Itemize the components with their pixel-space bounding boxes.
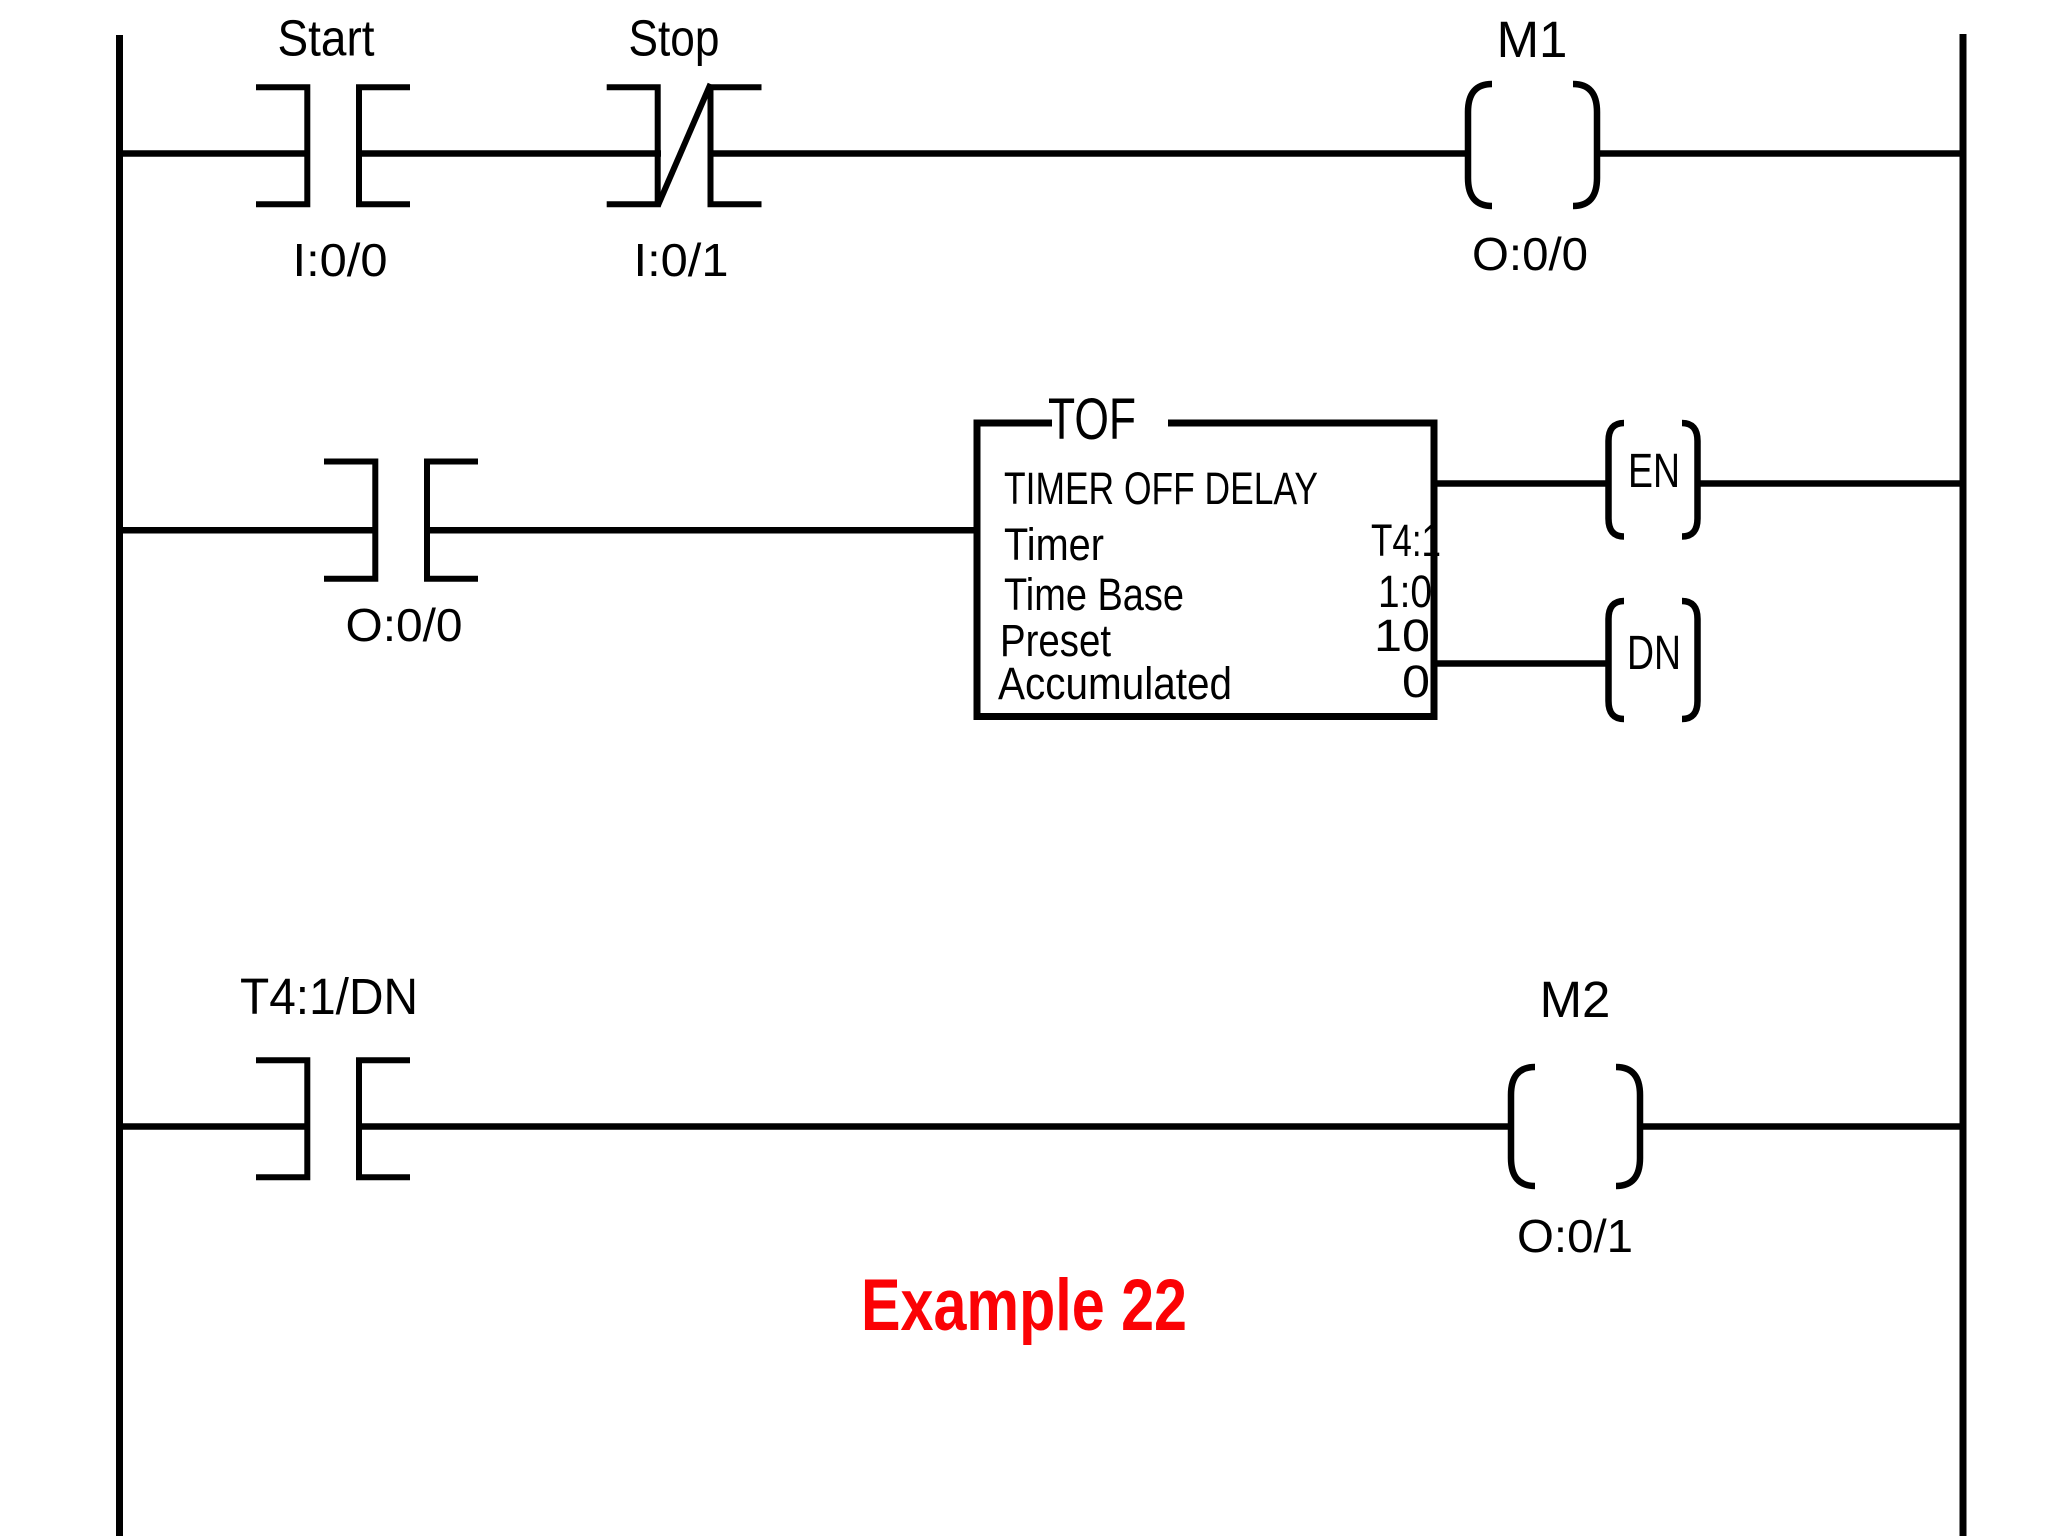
svg-text:T4:1/DN: T4:1/DN <box>240 968 418 1025</box>
svg-text:TOF: TOF <box>1048 387 1136 452</box>
svg-text:I:0/1: I:0/1 <box>634 234 729 286</box>
wire coil M1 to right rail <box>1595 150 1963 157</box>
right power rail <box>1960 34 1967 1536</box>
contact Start (NO) I:0/0 <box>256 87 410 204</box>
wire between Start and Stop <box>359 150 661 157</box>
svg-text:Stop: Stop <box>629 10 720 67</box>
output flag EN <box>1609 423 1698 537</box>
left power rail <box>116 35 123 1536</box>
coil M1 O:0/0 <box>1468 84 1597 206</box>
svg-text:I:0/0: I:0/0 <box>293 234 388 286</box>
svg-text:TIMER OFF DELAY: TIMER OFF DELAY <box>1004 463 1318 514</box>
wire TOF box to DN bracket <box>1437 660 1609 667</box>
contact O:0/0 (NO) <box>324 462 478 579</box>
contact Stop (NC) I:0/1 <box>607 84 762 206</box>
wire coil M2 to right rail <box>1638 1123 1963 1130</box>
svg-text:Example 22: Example 22 <box>861 1265 1187 1346</box>
timer block TOF T4:1 <box>974 420 1438 721</box>
wire EN bracket to right rail <box>1698 480 1964 487</box>
rung 1 wire: rail to Start contact <box>116 150 307 157</box>
svg-text:Accumulated: Accumulated <box>998 658 1232 709</box>
rung 3 wire: rail to contact <box>116 1123 307 1130</box>
coil M2 O:0/1 <box>1511 1067 1640 1186</box>
wire Stop to coil M1 <box>711 150 1471 157</box>
svg-text:M1: M1 <box>1497 11 1568 68</box>
svg-text:10: 10 <box>1374 610 1430 661</box>
output flag DN <box>1609 601 1698 719</box>
wire contact to coil M2 <box>359 1123 1512 1130</box>
svg-text:O:0/0: O:0/0 <box>1472 228 1588 280</box>
svg-text:EN: EN <box>1628 445 1680 498</box>
svg-text:M2: M2 <box>1540 971 1611 1028</box>
svg-text:DN: DN <box>1627 627 1681 680</box>
svg-text:Time Base: Time Base <box>1004 569 1184 620</box>
svg-text:Timer: Timer <box>1004 519 1104 570</box>
wire contact to TOF box <box>427 527 977 534</box>
svg-text:O:0/1: O:0/1 <box>1517 1210 1633 1262</box>
NC slash <box>658 84 711 206</box>
contact T4:1/DN (NO) <box>256 1060 410 1177</box>
rung 2 wire: rail to contact <box>116 527 375 534</box>
svg-text:O:0/0: O:0/0 <box>346 599 463 651</box>
svg-text:Start: Start <box>278 10 375 67</box>
svg-text:T4:1: T4:1 <box>1371 515 1441 566</box>
svg-text:0: 0 <box>1402 656 1430 707</box>
wire TOF box to EN bracket <box>1437 480 1609 487</box>
